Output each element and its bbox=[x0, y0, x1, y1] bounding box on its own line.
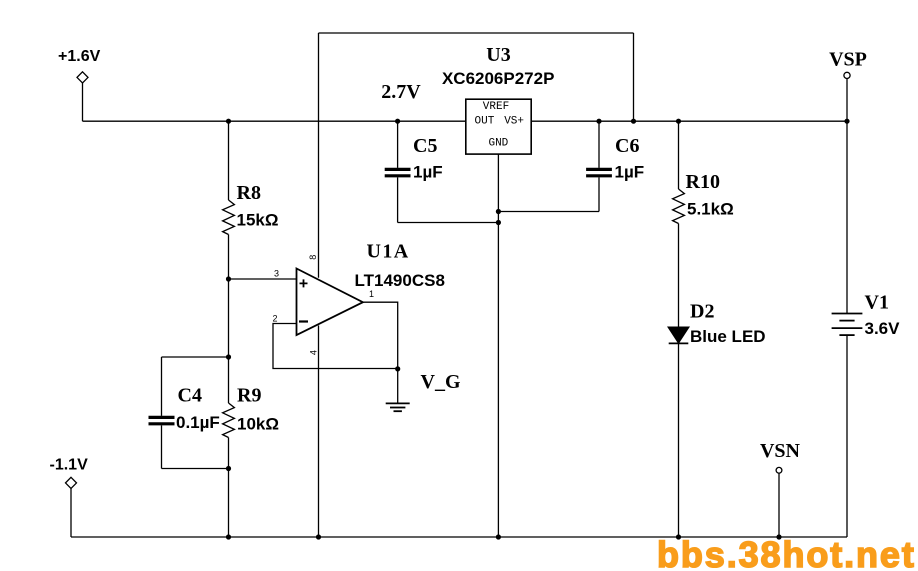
resistor R9 bbox=[223, 357, 235, 469]
svg-text:+1.6V: +1.6V bbox=[58, 48, 101, 65]
wire U3 GND to bottom rail bbox=[497, 154, 499, 537]
svg-text:2: 2 bbox=[272, 314, 277, 324]
wire bottom rail bbox=[71, 536, 847, 538]
junction node B (C4/R9 bottom) bbox=[226, 466, 231, 471]
svg-text:1µF: 1µF bbox=[413, 163, 443, 182]
svg-text:15kΩ: 15kΩ bbox=[237, 211, 279, 230]
wire U1A output pin 1 bbox=[363, 302, 398, 369]
svg-text:-1.1V: -1.1V bbox=[50, 457, 89, 474]
svg-text:U1A: U1A bbox=[367, 241, 410, 263]
svg-text:GND: GND bbox=[488, 138, 508, 150]
LED D2 bbox=[668, 327, 689, 343]
junction C6 / top rail bbox=[596, 119, 601, 124]
power flag -1.1V bbox=[66, 477, 77, 537]
junction C5 / top rail bbox=[395, 119, 400, 124]
wire D2 to bottom rail bbox=[678, 343, 680, 537]
wire top loop drop to rail bbox=[633, 33, 635, 121]
svg-text:3: 3 bbox=[274, 269, 279, 279]
junction node A (C4/R9 top) bbox=[226, 354, 231, 359]
junction GND / C5 tie bbox=[496, 220, 501, 225]
junction VSP / top rail bbox=[844, 119, 849, 124]
ground V_G bbox=[386, 369, 410, 411]
svg-text:C5: C5 bbox=[413, 135, 437, 157]
svg-text:R8: R8 bbox=[237, 182, 261, 204]
svg-text:VSP: VSP bbox=[829, 49, 867, 71]
svg-text:V_G: V_G bbox=[421, 371, 461, 393]
svg-text:0.1µF: 0.1µF bbox=[176, 413, 220, 432]
junction pin3 tap bbox=[226, 276, 231, 281]
svg-text:D2: D2 bbox=[690, 301, 714, 323]
resistor R8 bbox=[223, 121, 235, 279]
svg-text:C4: C4 bbox=[178, 385, 202, 407]
svg-text:C6: C6 bbox=[615, 135, 639, 157]
svg-text:Blue LED: Blue LED bbox=[690, 327, 766, 346]
junction GND / bottom rail bbox=[496, 534, 501, 539]
svg-text:8: 8 bbox=[308, 255, 318, 260]
power flag +1.6V bbox=[77, 72, 88, 121]
wire C5 bottom tie bbox=[398, 222, 499, 224]
svg-text:VSN: VSN bbox=[760, 440, 801, 462]
svg-text:bbs.38hot.net: bbs.38hot.net bbox=[657, 534, 916, 571]
svg-text:4: 4 bbox=[309, 350, 319, 355]
junction D2 / bottom rail bbox=[676, 534, 681, 539]
wire node A to C4 bbox=[162, 356, 229, 358]
svg-text:VS+: VS+ bbox=[504, 115, 524, 127]
svg-text:10kΩ: 10kΩ bbox=[237, 415, 279, 434]
svg-text:1: 1 bbox=[369, 289, 374, 299]
junction VSN / bottom rail bbox=[776, 534, 781, 539]
port VSP bbox=[844, 72, 850, 121]
wire U1A pin 2 feedback bbox=[273, 324, 398, 369]
junction output / feedback bbox=[395, 366, 400, 371]
IC U3 (regulator box) bbox=[466, 99, 531, 154]
wire node B to bottom rail bbox=[228, 469, 230, 538]
svg-text:2.7V: 2.7V bbox=[381, 81, 421, 103]
op-amp U1A bbox=[297, 269, 363, 336]
svg-text:OUT: OUT bbox=[475, 115, 495, 127]
wire top rail right bbox=[531, 120, 847, 122]
junction R10 / top rail bbox=[676, 119, 681, 124]
junction loop drop / top rail bbox=[631, 119, 636, 124]
junction pin4 / bottom rail bbox=[316, 534, 321, 539]
svg-text:3.6V: 3.6V bbox=[865, 319, 901, 338]
wire R8 to node A bbox=[228, 279, 230, 357]
wire U1A pin 8 riser bbox=[318, 33, 320, 278]
junction GND / C6 tie bbox=[496, 209, 501, 214]
junction R8 / top rail bbox=[226, 119, 231, 124]
battery V1 bbox=[832, 121, 863, 537]
wire top loop horizontal bbox=[319, 32, 634, 34]
port VSN bbox=[776, 467, 782, 537]
capacitor C5 bbox=[385, 121, 411, 222]
capacitor C4 bbox=[149, 357, 175, 469]
svg-text:1µF: 1µF bbox=[615, 163, 645, 182]
svg-text:VREF: VREF bbox=[483, 101, 509, 113]
junction R9 / bottom rail bbox=[226, 534, 231, 539]
svg-text:5.1kΩ: 5.1kΩ bbox=[687, 200, 734, 219]
wire top rail left bbox=[83, 120, 466, 122]
svg-text:XC6206P272P: XC6206P272P bbox=[442, 69, 554, 88]
svg-text:LT1490CS8: LT1490CS8 bbox=[355, 271, 445, 290]
resistor R10 bbox=[673, 121, 685, 326]
capacitor C6 bbox=[586, 121, 612, 211]
wire C6 bottom tie bbox=[498, 211, 599, 213]
svg-text:R10: R10 bbox=[686, 171, 720, 193]
wire U1A pin 3 bbox=[229, 278, 297, 280]
wire C4 bottom bbox=[162, 468, 229, 470]
svg-text:V1: V1 bbox=[865, 292, 889, 314]
wire U1A pin 4 to bottom rail bbox=[318, 326, 320, 538]
svg-text:U3: U3 bbox=[486, 44, 510, 66]
svg-text:R9: R9 bbox=[237, 385, 261, 407]
